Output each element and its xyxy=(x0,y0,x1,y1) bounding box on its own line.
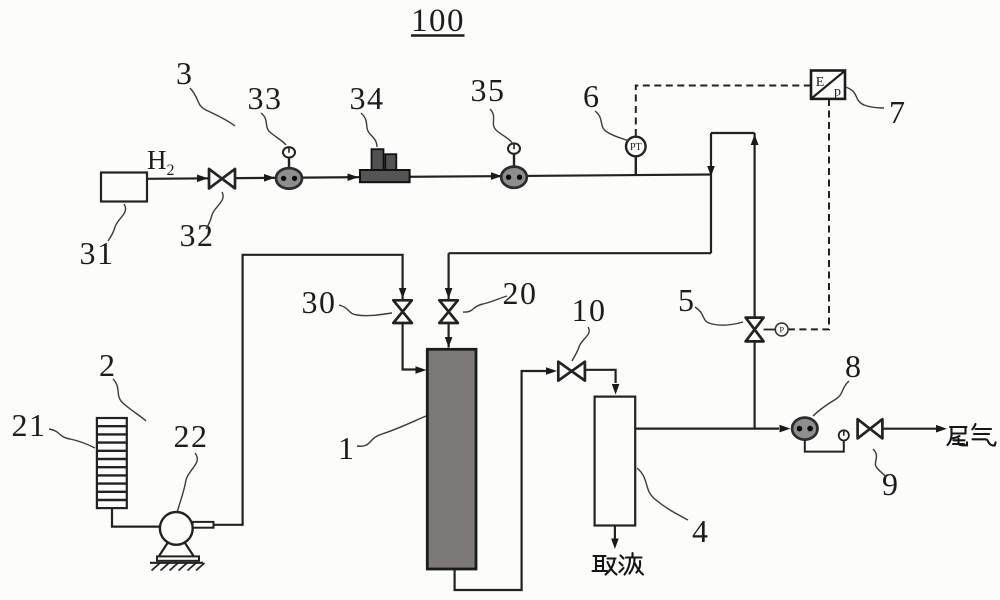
leader label 5 xyxy=(695,307,743,325)
leader label 4 xyxy=(637,468,688,520)
leader label 1 xyxy=(357,416,426,446)
wire vertical B bypass xyxy=(751,133,759,429)
ground xyxy=(150,563,205,571)
sensor 33 xyxy=(276,147,302,189)
title 100 xyxy=(411,3,465,39)
leader label 34 xyxy=(361,113,377,147)
leader label 30 xyxy=(339,305,392,316)
svg-text:4: 4 xyxy=(692,513,708,549)
leader label 7 xyxy=(846,87,885,108)
wire main H2 line xyxy=(147,172,711,182)
svg-text:P: P xyxy=(779,325,784,335)
svg-text:35: 35 xyxy=(471,72,506,108)
wire top bypass horizontal xyxy=(711,132,755,134)
leader label 32 xyxy=(206,192,223,229)
mass flow controller 34 xyxy=(360,149,410,182)
svg-text:8: 8 xyxy=(845,348,861,384)
svg-text:PT: PT xyxy=(630,142,642,153)
leader label 2 xyxy=(113,379,146,421)
svg-text:3: 3 xyxy=(176,55,192,91)
wire column bottom to valve 10 xyxy=(455,367,557,590)
svg-text:22: 22 xyxy=(174,418,209,454)
wire separator to sensor 8 xyxy=(635,425,790,433)
reservoir column 21 xyxy=(97,418,127,508)
sensor 35 xyxy=(501,143,527,187)
label 取液 (take liquid) xyxy=(593,553,644,575)
E/P converter box 7 xyxy=(811,71,845,100)
svg-text:5: 5 xyxy=(678,282,694,318)
H2 source box 31 xyxy=(101,173,147,202)
leader label 21 xyxy=(49,429,95,448)
valve 32 xyxy=(209,169,235,189)
pump stand xyxy=(157,542,199,561)
svg-text:2: 2 xyxy=(99,347,115,383)
wire valve 20 to column top xyxy=(445,323,453,348)
leader label 35 xyxy=(490,109,513,144)
leader label 31 xyxy=(108,204,126,241)
leader label 6 xyxy=(595,111,629,141)
separator vessel 4 xyxy=(595,397,636,526)
wire reservoir to pump xyxy=(112,508,160,526)
leader label 8 xyxy=(813,381,849,416)
svg-text:31: 31 xyxy=(80,235,115,271)
svg-text:21: 21 xyxy=(12,407,47,443)
svg-text:20: 20 xyxy=(503,275,538,311)
svg-text:6: 6 xyxy=(583,78,599,114)
dashed signal wire 7 to P gauge xyxy=(789,99,829,329)
svg-text:H2: H2 xyxy=(147,145,175,179)
svg-text:9: 9 xyxy=(882,466,898,502)
svg-text:33: 33 xyxy=(248,80,283,116)
leader label 33 xyxy=(261,113,286,145)
reactor column 1 xyxy=(427,349,476,569)
svg-text:1: 1 xyxy=(338,430,354,466)
svg-text:100: 100 xyxy=(411,3,465,39)
svg-text:E: E xyxy=(816,75,825,90)
wire vertical A junction xyxy=(707,133,715,253)
wire tail gas outlet xyxy=(882,425,947,433)
gas sensor 8 xyxy=(792,418,817,440)
dashed signal wire PT to 7 xyxy=(636,86,811,137)
valve 30 xyxy=(393,300,412,323)
back-pressure valve 5 xyxy=(746,318,789,342)
valve 10 xyxy=(558,362,585,381)
svg-text:10: 10 xyxy=(572,292,607,328)
pump 22 xyxy=(160,512,214,545)
svg-text:7: 7 xyxy=(889,94,905,130)
valve 20 xyxy=(439,300,458,323)
leader label 10 xyxy=(572,327,589,361)
wire feed line to valve 20 xyxy=(445,253,711,300)
wire sensor 8 bypass loop xyxy=(805,440,844,452)
svg-text:p: p xyxy=(834,85,841,100)
svg-text:30: 30 xyxy=(302,284,337,320)
label 尾气 (tail gas) xyxy=(948,424,996,446)
valve 9 xyxy=(858,419,883,438)
leader label 3 xyxy=(190,88,235,126)
pressure transmitter PT 6 xyxy=(626,137,646,175)
wire pump to valve 30 xyxy=(214,255,406,525)
leader label 22 xyxy=(178,453,198,511)
wire valve 30 to column side xyxy=(403,323,427,374)
leader label 9 xyxy=(873,449,886,477)
small regulator circle at valve 9 xyxy=(839,430,849,440)
svg-text:34: 34 xyxy=(350,80,385,116)
wire valve 10 to separator 4 xyxy=(585,370,620,395)
wire separator bottom outlet xyxy=(611,526,619,550)
leader label 20 xyxy=(463,296,507,312)
